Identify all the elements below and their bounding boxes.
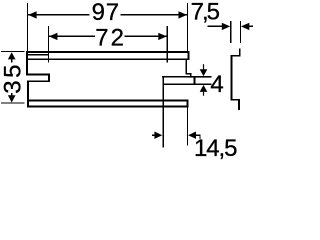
dimension line 97 right segment xyxy=(120,14,186,15)
dimension 14.5 leader jog xyxy=(199,135,200,140)
rail bottom fold line xyxy=(28,100,188,102)
rail right mid vertical xyxy=(185,60,187,75)
profile top step xyxy=(231,55,241,57)
rail right channel left curl / 14.5 left extension xyxy=(162,76,164,148)
rail left end edge xyxy=(26,51,28,75)
profile bottom step xyxy=(231,99,241,101)
arrowhead 14.5 right xyxy=(188,132,196,139)
extension line 35 bottom xyxy=(1,103,24,104)
arrowhead 35 bottom xyxy=(8,95,16,102)
arrowhead 72 right xyxy=(158,33,166,40)
dimension line 35 lower stem xyxy=(11,93,12,97)
dimension line 7.5 left tail xyxy=(207,26,223,27)
svg-text:97: 97 xyxy=(92,0,120,26)
dimension line 7.5 right tail xyxy=(248,26,253,27)
arrowhead 7.5 right xyxy=(241,23,249,30)
svg-text:35: 35 xyxy=(0,62,27,94)
dimension line 4 top xyxy=(188,76,211,77)
extension line 14.5 right xyxy=(187,108,188,146)
dimension line 72 right segment xyxy=(125,36,167,37)
rail top flange section lip line xyxy=(28,54,49,55)
extension line 7.5 right xyxy=(240,21,241,43)
extension line 97 right xyxy=(187,3,188,51)
svg-text:72: 72 xyxy=(95,24,126,51)
dimension line 72 left segment xyxy=(49,36,95,37)
arrowhead 4 up stem xyxy=(203,92,204,96)
dimension line 97 left segment xyxy=(28,14,89,15)
svg-text:14,5: 14,5 xyxy=(194,135,237,161)
rail right channel end cap xyxy=(194,76,196,85)
arrowhead 97 left xyxy=(28,11,36,18)
dimension line 14.5 left tail xyxy=(152,135,156,136)
rail right channel top line xyxy=(162,76,211,78)
rail bottom edge xyxy=(28,106,188,108)
extension line 72 right xyxy=(167,26,168,62)
svg-text:7,5: 7,5 xyxy=(191,0,220,25)
extension line 97 left xyxy=(27,3,28,51)
arrowhead 72 left xyxy=(49,33,57,40)
profile back edge bottom xyxy=(238,99,240,110)
rail right step vertical xyxy=(190,73,191,77)
profile back edge top xyxy=(239,48,241,56)
rail left section finger end xyxy=(48,74,50,83)
rail top edge xyxy=(27,51,189,53)
arrowhead 97 right xyxy=(179,11,187,18)
arrowhead 35 top xyxy=(8,52,16,59)
rail top right end cap xyxy=(187,51,189,60)
rail right step horizontal xyxy=(185,73,191,75)
extension line 72 left xyxy=(48,26,49,62)
rail left section finger bottom xyxy=(27,80,50,82)
rail left section finger top xyxy=(26,74,50,76)
arrowhead 4 down xyxy=(200,69,208,76)
dimension line 35 upper stem xyxy=(11,59,12,63)
svg-text:4: 4 xyxy=(210,71,223,98)
arrowhead 4 up xyxy=(200,85,208,92)
arrowhead 14.5 left xyxy=(154,132,162,139)
rail right channel bottom line xyxy=(164,83,212,85)
rail bottom right end cap xyxy=(186,100,188,108)
dimension line 4 bottom xyxy=(188,84,211,85)
rail top fold line xyxy=(27,58,188,60)
rail left lower edge xyxy=(27,80,29,107)
dimension line 14.5 right tail xyxy=(195,135,200,136)
extension line 7.5 left xyxy=(230,21,231,43)
arrowhead 7.5 left xyxy=(222,23,230,30)
extension line 35 top xyxy=(1,51,24,52)
arrowhead 4 down stem xyxy=(203,64,204,70)
profile front face xyxy=(231,55,233,101)
